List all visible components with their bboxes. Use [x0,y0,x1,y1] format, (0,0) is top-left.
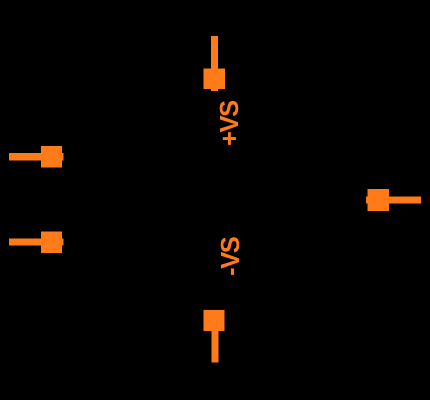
pin IN- pad [41,232,62,253]
pin IN+ wire [9,153,64,161]
pin OUT pad [368,189,389,211]
pin IN+ pad [41,146,62,168]
pin -VS pad [204,310,225,331]
pin +VS pad [204,69,226,90]
svg-text:-VS: -VS [217,236,245,276]
pin -VS wire [211,310,218,362]
svg-text:+VS: +VS [216,100,244,146]
pin OUT wire [366,196,421,203]
pin IN- wire [9,239,64,246]
op-amp U1 (symbol body not visible on black background) [9,146,64,168]
pin +VS wire [211,36,218,91]
